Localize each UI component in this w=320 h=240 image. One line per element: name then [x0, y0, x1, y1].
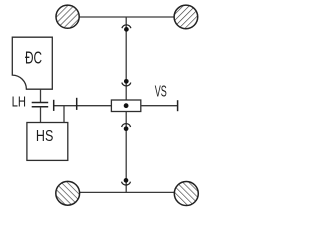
side shaft end tick — [177, 100, 179, 111]
universal joint J2 (above transfer box) — [122, 79, 131, 86]
clutch LH plate 2 — [32, 106, 49, 108]
engine box DC — [12, 37, 52, 89]
svg-text:ĐC: ĐC — [25, 48, 42, 68]
propeller shaft (vertical) — [125, 17, 127, 192]
transfer box — [111, 100, 140, 112]
svg-text:VS: VS — [155, 83, 167, 100]
svg-text:HS: HS — [36, 127, 53, 145]
clutch input stub — [40, 89, 42, 102]
side shaft VS — [141, 105, 178, 107]
wheel top-left — [56, 5, 79, 28]
transfer box dot — [124, 103, 129, 108]
clutch LH plate 1 — [32, 102, 49, 104]
universal joint J1 (below front axle) — [122, 25, 131, 32]
front axle (top) — [79, 16, 174, 18]
clutch output stub — [40, 107, 42, 123]
universal joint J3 (below transfer box) — [122, 124, 131, 131]
universal joint J4 (above rear axle) — [122, 178, 131, 185]
output shaft to transfer box — [54, 105, 112, 107]
wheel bottom-right — [174, 182, 198, 206]
gearbox output riser — [63, 106, 65, 123]
shaft bearing tick — [76, 98, 78, 110]
shaft end tick left — [53, 100, 55, 111]
svg-text:LH: LH — [12, 93, 26, 110]
gearbox HS box — [27, 123, 68, 161]
rear axle (bottom) — [80, 191, 175, 193]
wheel bottom-left — [56, 181, 80, 205]
wheel top-right — [174, 5, 198, 29]
